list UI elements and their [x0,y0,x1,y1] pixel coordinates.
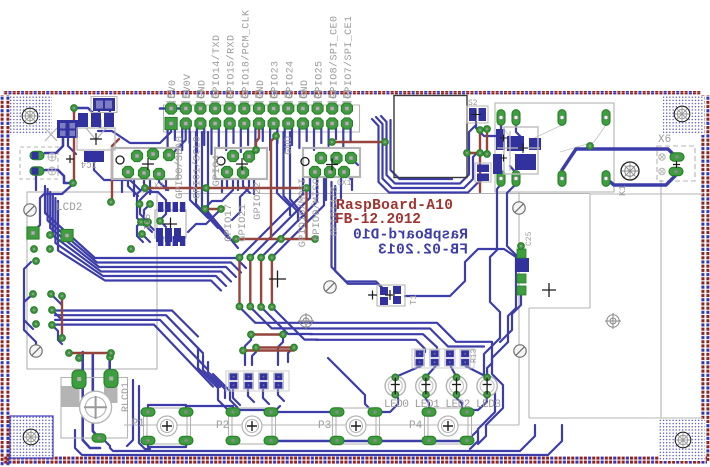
mirrored board name navy [353,228,468,244]
origin cross right [542,283,556,297]
wire bundle header cols to via row diagonals [240,177,304,258]
wire bottom long trace [75,425,562,455]
wire text-left verticals to T1 [332,182,385,290]
board outline top edge (dashed dimension) [3,91,701,93]
red trace horizontal y239 [236,238,315,240]
svg-text:GPIO8/SPI_CE0: GPIO8/SPI_CE0 [328,16,340,99]
svg-text:GPIO15/RXD: GPIO15/RXD [226,35,238,99]
red trace IC1 vertical [112,139,119,202]
wire stubs under GPIO header [168,126,351,154]
fiducial target centre [298,313,314,329]
wire relay internal [501,124,523,139]
vias above RLCD1 [76,354,114,362]
connector X4 GPIO header pads [165,103,353,130]
wire staircase bundle to right [298,323,492,342]
push button P3 [330,408,382,445]
red trace S3/S4 verticals [479,130,481,192]
board outline right edge outer [701,95,704,461]
svg-text:K1: K1 [618,185,628,196]
wire X1 box right traces [344,158,358,180]
wire P2-P4 bottom chain [271,440,467,443]
op-amp IC5 SOIC-8 [155,202,186,246]
svg-text:GPIO7/SPI_CE1: GPIO7/SPI_CE1 [343,16,355,99]
silkscreen relay K1 box [495,103,614,192]
LED1 [416,374,436,398]
svg-text:GPIO10/MOSI: GPIO10/MOSI [297,178,309,247]
svg-text:LCD2: LCD2 [56,202,82,214]
smd pads row y232 [156,228,181,242]
red trace via276 to y239 [271,136,276,239]
silkscreen long horizontal line y=425 [124,424,519,426]
wire RLCD1 through traces [83,352,100,448]
svg-text:GPIO9/MISO: GPIO9/MISO [311,178,323,241]
red trace horizontal y334 [251,333,283,335]
svg-text:X6: X6 [658,134,671,146]
wire P4 right to loops [467,430,478,441]
svg-text:GPIO24: GPIO24 [285,61,296,99]
diode D3 right of LEDs [515,249,529,295]
GPIO header top labels [168,10,355,99]
svg-text:5V0V: 5V0V [183,74,194,99]
transistor T2/T3 diode D2 cluster [493,127,541,174]
drill hole right lower [514,345,526,357]
wire P2 to P3 top [271,411,337,413]
red trace top-left vertical C1 area [73,110,75,183]
LCD2 pad cluster middle [30,291,66,342]
wire IC3 to IC4 [68,138,76,154]
svg-text:C25: C25 [525,231,534,246]
mounting hole H4 [675,432,691,448]
svg-text:S2: S2 [468,99,478,108]
potentiometer RLCD1 [61,370,128,443]
wire crystal loop [140,192,166,222]
LED3 [477,374,497,398]
red trace vertical grid x250 [249,258,251,307]
wire X7 area weave down-left [188,209,221,232]
wire relay thick trace right [562,149,676,176]
red trace short y209 [205,208,221,210]
svg-text:P1: P1 [132,418,146,430]
svg-text:GND: GND [197,80,208,99]
silkscreen GPIO header outline X4 [164,102,360,133]
wire LED bottoms to P4 [426,395,429,412]
mounting keepout square top-right X6 [663,96,704,135]
connector X1 [301,148,360,178]
silkscreen big module box right [529,180,703,418]
silkscreen X mark below keepout [45,128,57,141]
svg-text:GPIO23: GPIO23 [271,61,282,99]
red trace vertical grid x240 [238,258,240,307]
svg-text:IC4: IC4 [81,159,97,169]
relay K1 pads [497,110,610,187]
LCD2 pad cluster top [27,227,134,264]
board outline top edge inner row [3,93,701,95]
svg-text:GPIO0/SDA0: GPIO0/SDA0 [174,136,186,199]
wire T1 to D3 [405,249,516,296]
mirrored board date navy [378,243,468,259]
diode D1 top-left [91,97,117,113]
board outline left edge inner [6,95,9,466]
wire loops bottom right of LEDs [470,338,500,449]
silkscreen C1/C2 dashed box [20,147,58,179]
svg-text:GPIO25: GPIO25 [315,61,326,99]
mounting keepout square top-left [10,96,52,135]
wire staircase diag to P3 [328,358,370,409]
capacitor C1 [30,151,56,161]
wire bottom second trace [104,425,535,451]
resistor array R1-R4 [412,349,474,368]
screw hole K1 [621,162,639,180]
jumper S3 [467,106,488,123]
silkscreen horizontal line y=193.5 [178,193,590,195]
red trace short x256 [256,127,259,150]
wire gap1 verticals below header [190,132,208,218]
drill hole right upper [513,202,525,214]
connector X7 (middle) [215,148,267,179]
C1/C2 plus marks [66,155,74,163]
red trace LCD2 left vertical [61,296,63,338]
svg-text:GND: GND [256,80,267,99]
wire S3 to relay [476,122,496,136]
wire middle connector down [227,172,250,193]
svg-text:GPIO18/PCM_CLK: GPIO18/PCM_CLK [240,10,252,99]
wire R5-R8 bottoms down [233,390,284,405]
crystal Q1 pads [144,218,164,227]
red trace horizontal y347 [256,346,294,348]
wire P1 to P2 top [186,406,233,412]
silkscreen X5 dashed box [657,146,695,181]
red trace header right horizontal [332,141,385,143]
drill hole LCD2 top [24,204,36,216]
LED0 [385,374,405,398]
wire caps to LCD area verticals [33,184,73,232]
svg-text:P2: P2 [216,420,229,432]
fiducial target right [605,313,621,329]
wire LED3 top to staircase [487,342,492,377]
board outline right edge inner [706,95,709,461]
wire relay pad to X5 lower [606,172,676,185]
connector X5 pads [659,153,684,176]
red trace bottom-left horizontal [69,352,111,354]
module S1 outline black rect [394,96,467,178]
wire around module rect loops [372,119,486,193]
IC3 small regulator [57,120,78,138]
LED2 [446,374,466,398]
wire P1 pads chain [148,405,186,447]
svg-text:X2: X2 [154,182,164,191]
svg-text:FB-02.2013: FB-02.2013 [378,243,468,259]
mounting hole H2 [674,106,690,122]
wire below connector boxes stubs [122,177,352,200]
wire LED3 to P4 [470,395,487,410]
wire bundle left horizontals LCD2 [45,186,246,268]
relay internal silk lines [501,125,606,152]
board outline left edge outer [1,95,4,466]
wire R array to LED tops [395,366,421,377]
board outline bottom edge inner [3,461,707,464]
svg-text:RLCD1: RLCD1 [121,382,132,412]
resistor array R5-R8 [226,371,289,391]
svg-text:GPIO22: GPIO22 [252,182,264,220]
wire D3 down loop [500,294,521,342]
svg-text:GX1: GX1 [337,179,352,188]
wire D1 pads down [99,111,110,118]
wire left of P1 vertical [139,386,150,449]
red trace x307 vertical [305,188,307,239]
svg-text:GPIO4: GPIO4 [211,155,223,187]
svg-text:GPIO21: GPIO21 [237,204,249,242]
capacitor C2 [30,167,56,175]
svg-text:RaspBoard-D10: RaspBoard-D10 [353,228,468,244]
svg-text:GPIO1/SCL0: GPIO1/SCL0 [192,136,204,199]
svg-text:FB-12.2012: FB-12.2012 [335,212,421,228]
push button P4 [422,408,474,445]
mounting keepout square bottom-right [659,419,705,461]
vias [66,105,594,357]
svg-text:GND: GND [283,136,295,155]
drill hole centre [324,281,336,293]
mounting hole H3 [23,429,39,445]
drill hole mid-left [30,345,42,357]
LCD2 pin1 square pad [61,229,73,241]
mounting keepout square bottom-left [10,416,53,458]
svg-text:GPIO14/TXD: GPIO14/TXD [211,35,223,99]
red trace vertical grid x272 [271,258,273,307]
red trace vertical grid x261 [260,258,262,307]
svg-text:GPIO17: GPIO17 [223,204,235,242]
wire gap2 verticals below header [277,132,290,215]
IC4 regulator outline [77,128,115,162]
svg-text:IC5: IC5 [143,214,153,230]
silkscreen vertical line x=519 [518,192,520,425]
svg-text:5V0: 5V0 [168,80,179,99]
wire P3 to LED0 [375,398,398,412]
wire bundle left mid horizontals [55,311,198,337]
mounting hole H1 [22,108,38,124]
red trace long horizontal y188 [145,187,307,189]
jumper S4 [475,163,491,182]
silkscreen LCD2 module box [27,192,157,369]
wire left edge vertical [24,262,33,329]
wire right side long verticals [490,184,501,338]
connector X2 [112,148,178,180]
wire IC5 area loops [137,187,152,242]
push button P1 [141,408,193,445]
wire bundle via row2 down to staircase [240,307,301,323]
svg-text:GND: GND [300,80,311,99]
svg-text:P3: P3 [318,420,331,432]
origin cross centre [269,271,286,288]
capacitors C3/C4/C5 smd top-left [78,113,114,127]
svg-text:T1: T1 [409,294,419,305]
wire header row1 left link [160,107,186,110]
GPIO header bottom labels [174,136,341,247]
svg-text:LED0 LED1 LED2 LED3: LED0 LED1 LED2 LED3 [384,399,501,411]
board outline bottom edge outer [3,457,707,460]
red trace horizontal y350 LED resistors [243,349,294,351]
transistor T1 [368,285,405,306]
wire fanout header left to caps area [98,124,171,143]
push button P2 [226,408,278,445]
wire R5-R8 feed from vias [245,334,283,365]
wire X2 pads down [128,172,168,196]
svg-text:R13: R13 [470,348,479,363]
silkscreen pin squares above header [168,91,350,97]
svg-text:P4: P4 [409,420,423,432]
wire LCD2 bottom verticals to P area [198,348,228,410]
wire pads cluster links [24,294,36,351]
